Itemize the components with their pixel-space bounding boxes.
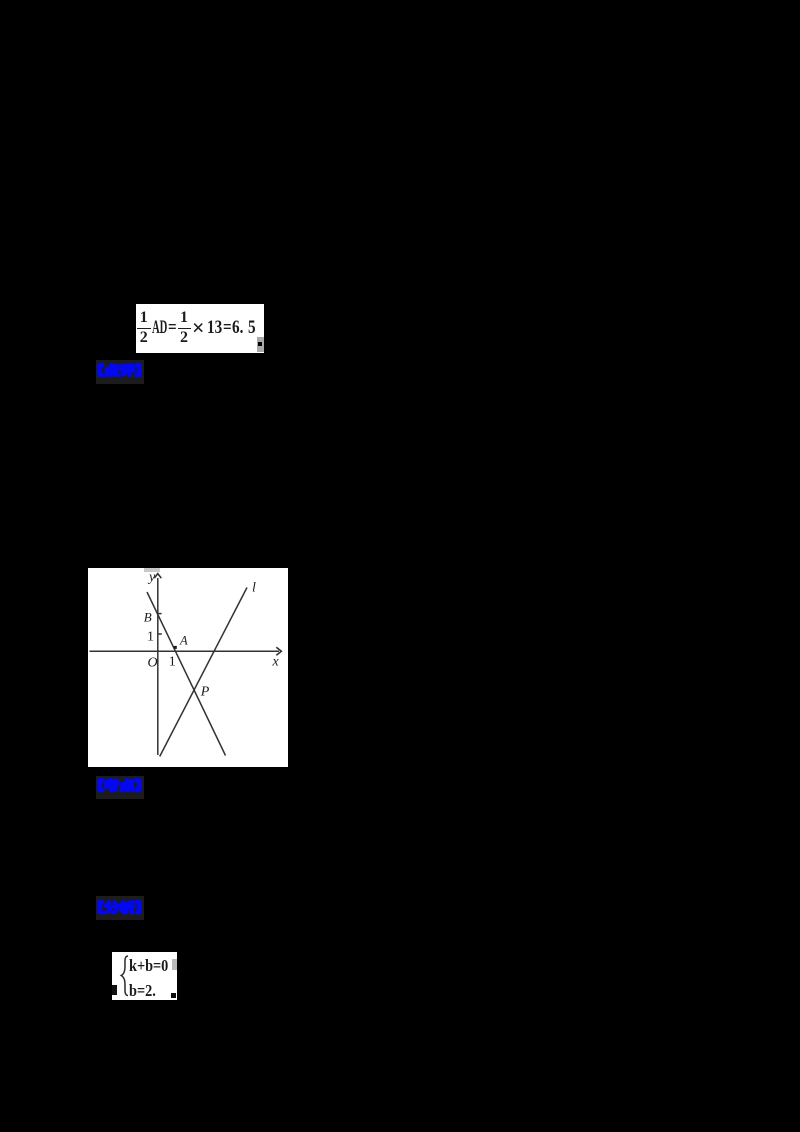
svg-text:B: B: [144, 609, 152, 624]
svg-text:y: y: [147, 570, 156, 585]
graph image box: [88, 568, 288, 767]
tick 1 (y): [158, 633, 162, 635]
gray selected period block at box corner: [257, 337, 265, 352]
fraction 1/2 (second): [178, 310, 191, 347]
svg-text:P: P: [200, 685, 210, 700]
dot at A: [174, 646, 177, 649]
k+b=0: [129, 957, 168, 974]
blue hyperlink label 1: [96, 360, 144, 384]
svg-text:x: x: [272, 654, 280, 669]
left brace: [118, 952, 132, 999]
down line through B and A: [147, 592, 226, 756]
fraction 1/2 (first): [137, 310, 152, 347]
svg-text:O: O: [148, 655, 158, 670]
equation system image box: [112, 952, 177, 1000]
gray artifact bar at top: [144, 568, 160, 572]
b=2.: [129, 982, 156, 999]
svg-text:1: 1: [169, 655, 176, 670]
svg-text:A: A: [179, 634, 188, 648]
svg-text:1: 1: [147, 630, 154, 645]
tick B: [158, 613, 162, 615]
y-axis: [157, 578, 159, 755]
formula image box: (1/2)AD=(1/2)x13=6.5: [136, 304, 264, 353]
blue hyperlink label 2: [96, 776, 144, 799]
x-axis: [90, 650, 280, 652]
artifacts around the eq box: [112, 985, 117, 995]
svg-text:l: l: [252, 580, 256, 595]
times 13 = 6.5: [192, 317, 205, 339]
blue hyperlink label 3: [96, 896, 144, 920]
AD=: [152, 319, 167, 338]
up line l: [160, 588, 247, 757]
